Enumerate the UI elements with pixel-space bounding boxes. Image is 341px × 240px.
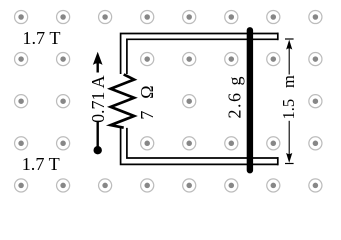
svg-text:2.6 g: 2.6 g	[225, 77, 245, 119]
current arrowhead	[93, 52, 103, 65]
dimension annotation 1.5 m	[279, 39, 298, 164]
resistor R 7 ohm (zigzag)	[111, 74, 134, 127]
sliding rod (2.6 g bar)	[247, 30, 253, 170]
svg-text:0.71 A: 0.71 A	[88, 75, 108, 123]
dimension lower shaft + down arrowhead	[288, 121, 290, 155]
field dots grid: B out of page	[15, 10, 322, 192]
svg-text:1.7 T: 1.7 T	[22, 28, 60, 48]
dimension upper shaft + up arrowhead	[288, 48, 290, 75]
current arrow shaft lower	[96, 122, 98, 151]
wire: outer rail line (top, left outer, bottom)	[121, 34, 279, 165]
dimension bottom tick	[285, 163, 294, 165]
wire: inner rail line	[127, 39, 279, 158]
wire: right end cap of bottom rail	[277, 157, 279, 165]
dimension top tick	[285, 38, 294, 40]
current arrow annotation	[88, 52, 108, 155]
current dot (start point)	[94, 146, 102, 154]
wire: right end cap of top rail	[277, 33, 279, 41]
current arrow shaft upper	[96, 62, 98, 73]
svg-text:1.7 T: 1.7 T	[22, 154, 60, 174]
